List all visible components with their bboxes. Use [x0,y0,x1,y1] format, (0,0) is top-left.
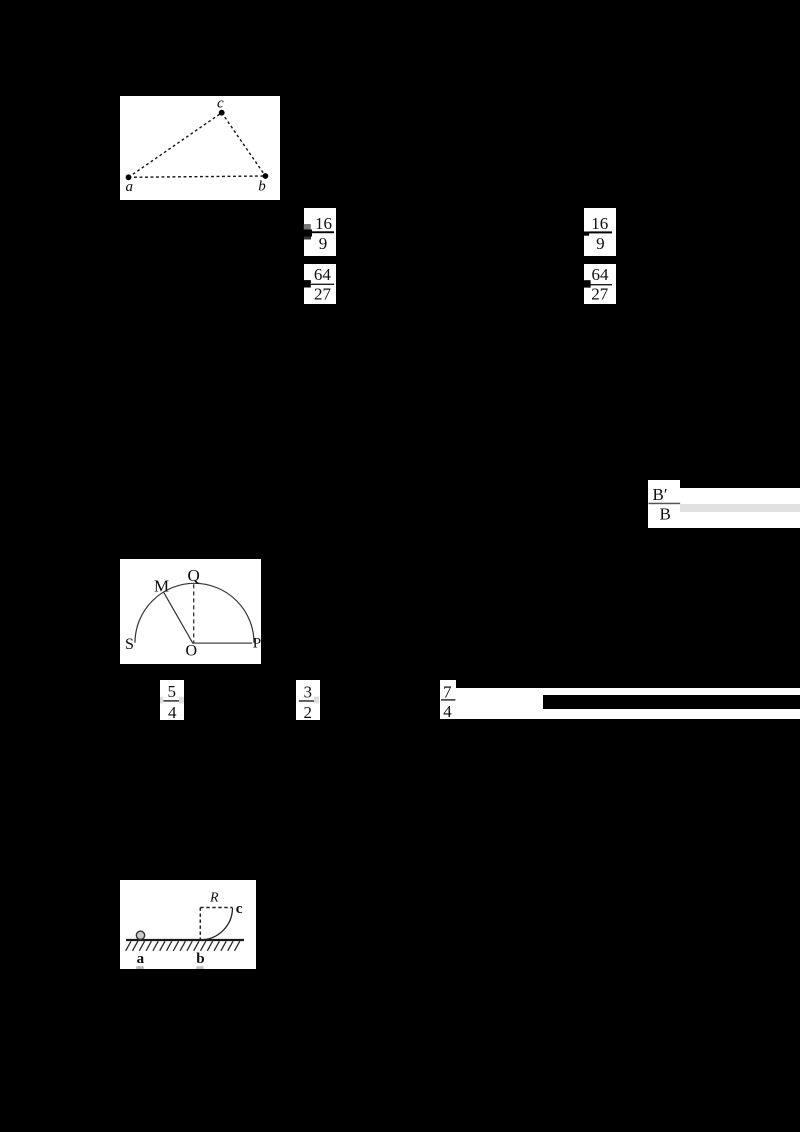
white panel: fraction 7/4 [440,680,456,719]
svg-text:2: 2 [303,703,312,722]
svg-text:3: 3 [304,683,313,702]
svg-text:b: b [196,951,204,967]
physics: dashed horizontal R line [200,907,232,909]
physics: ground hatching [126,941,240,951]
svg-text:Q: Q [188,566,200,585]
svg-text:P: P [253,636,261,652]
svg-text:M: M [154,577,169,596]
svg-text:27: 27 [314,284,332,303]
svg-text:b: b [258,179,266,195]
svg-text:R: R [209,891,219,906]
svg-text:16: 16 [591,214,608,233]
white panel: fraction 64/27 (left) [304,264,336,304]
svg-text:B′: B′ [653,485,668,504]
dashed radius O-Q [193,584,195,642]
fraction 64/27 left: minus blob [304,280,311,287]
white panel: fraction 5/4 [160,680,184,720]
svg-text:4: 4 [443,702,452,721]
svg-text:64: 64 [314,265,332,284]
svg-text:9: 9 [319,234,328,253]
fraction 5/4 gray flecks [160,697,163,704]
physics: dashed vertical R line [199,908,201,940]
white panel: fraction 3/2 [296,680,320,720]
svg-text:O: O [186,642,198,659]
svg-text:7: 7 [443,682,452,701]
physics: ball [136,931,144,939]
white panel: physics figure [120,880,256,969]
node a dot [126,174,132,180]
node b dot [263,173,269,179]
svg-text:5: 5 [167,682,176,701]
svg-text:B: B [660,505,671,524]
fraction 16/9 right: minus blob [584,232,589,236]
node c dot [219,110,225,116]
gray stripe inside band [680,504,800,512]
fraction 64/27 left: bar [311,284,334,285]
triangle: wire a-c dashed [129,113,222,178]
faint clipped text below label a [136,966,144,969]
triangle: wire a-b dashed [129,176,266,177]
white panel: fraction 16/9 (left) [304,208,336,256]
fraction 16/9 left: bar [312,231,334,233]
fraction 7/4 bar [441,699,455,700]
white panel: triangle figure [120,96,280,200]
fraction 16/9 left: minus blob [304,224,311,230]
svg-text:4: 4 [168,703,177,722]
triangle: wire c-b dashed [222,113,266,176]
fraction 5/4 bar [163,700,179,701]
svg-text:64: 64 [592,265,610,284]
white panel: fraction 16/9 (right) [584,208,616,256]
physics: ground line [126,939,244,941]
fraction 64/27 right: minus blob [584,280,591,287]
svg-text:16: 16 [315,214,332,233]
black bar inside band [543,695,800,709]
radius line O-P [192,642,252,644]
fraction 64/27 right: bar [591,284,613,285]
faint clipped text below label b [196,966,204,969]
white panel: B prime over B fraction [648,480,680,528]
fraction 3/2 gray fleck [314,697,319,704]
fraction 3/2 bar [299,700,314,701]
white panel: semicircle figure [120,559,261,664]
svg-text:c: c [236,901,243,917]
radius line M-O [164,592,193,643]
svg-text:a: a [126,179,134,195]
semicircle arc S-Q-P [135,583,254,642]
physics: quarter-circle ramp arc [201,908,233,940]
white band after 7/4 [456,688,800,719]
white band right of B fraction [680,488,800,528]
fraction B'/B bar [649,503,681,505]
svg-text:c: c [217,95,224,111]
svg-text:9: 9 [596,234,605,253]
fraction 16/9 right: bar [589,231,612,233]
white panel: fraction 64/27 (right) [584,264,616,304]
svg-text:S: S [125,636,134,653]
svg-text:27: 27 [591,285,609,304]
svg-text:a: a [137,951,145,967]
